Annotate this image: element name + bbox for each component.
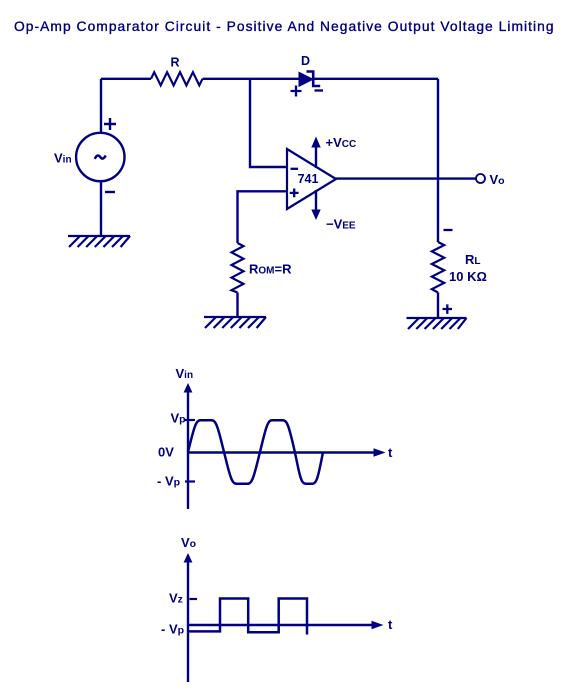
- label - (RL top polarity): [444, 229, 453, 231]
- svg-text:RL: RL: [465, 252, 481, 267]
- label + (source top): [104, 118, 116, 130]
- waveform: input sine: [188, 420, 323, 484]
- svg-text:Vz: Vz: [169, 591, 183, 606]
- label - (diode cathode): [315, 89, 324, 91]
- svg-text:Vo: Vo: [181, 535, 196, 550]
- wire: non-inverting input: [238, 191, 288, 243]
- svg-text:−VEE: −VEE: [326, 217, 356, 232]
- svg-text:Vin: Vin: [176, 366, 194, 381]
- wire: ROM to ground: [236, 293, 238, 318]
- supply arrow -VEE: [311, 190, 320, 220]
- wire: Vin bottom to ground: [100, 181, 102, 236]
- svg-text:D: D: [301, 54, 310, 68]
- waveform: output square: [188, 599, 307, 635]
- svg-text:Vp: Vp: [171, 411, 186, 426]
- tick Vz: [190, 598, 198, 600]
- label ~ (AC symbol): [95, 155, 106, 158]
- svg-text:- Vp: - Vp: [157, 474, 180, 489]
- svg-text:t: t: [388, 617, 393, 632]
- graph 1 y-axis: [184, 383, 193, 509]
- resistor ROM: [232, 243, 244, 293]
- svg-text:10 KΩ: 10 KΩ: [449, 269, 487, 284]
- label - (inverting input): [291, 168, 299, 170]
- ground (RL): [407, 318, 467, 329]
- svg-text:741: 741: [298, 172, 319, 186]
- supply arrow +Vcc: [311, 137, 320, 169]
- wire: top rail middle (R to diode): [203, 78, 301, 80]
- label + (diode anode): [291, 86, 302, 97]
- graph 1 x-axis: [188, 448, 386, 457]
- wire: right rail down: [437, 79, 439, 242]
- svg-text:ROM=R: ROM=R: [249, 262, 292, 277]
- svg-text:0V: 0V: [158, 445, 174, 460]
- tick -Vp: [185, 480, 195, 482]
- op-amp U1 741: [287, 149, 336, 209]
- tick Vp: [185, 419, 195, 421]
- terminal Vo (open circle): [476, 174, 485, 183]
- wire: Vin top: [100, 79, 102, 134]
- wire: junction down to inverting input: [250, 79, 287, 167]
- ground (ROM): [204, 317, 266, 328]
- wire: RL to ground: [437, 293, 439, 319]
- svg-text:- Vp: - Vp: [161, 622, 184, 637]
- diode D (zener): [299, 72, 320, 87]
- svg-text:t: t: [388, 445, 393, 460]
- label + (RL bottom polarity): [443, 304, 453, 314]
- resistor R: [151, 72, 203, 85]
- resistor RL: [432, 242, 444, 293]
- ground (Vin): [68, 236, 130, 247]
- svg-text:Vo: Vo: [490, 172, 505, 187]
- wire: top rail right (diode to right rail corner): [314, 78, 439, 80]
- source Vin (AC): [76, 133, 124, 181]
- svg-text:Vin: Vin: [54, 151, 72, 166]
- graph 2 x-axis: [188, 621, 384, 630]
- label - (source bottom): [105, 191, 115, 193]
- wire: top rail left (Vin top to resistor R): [101, 78, 151, 80]
- svg-text:R: R: [170, 56, 179, 70]
- svg-text:+VCC: +VCC: [326, 135, 357, 150]
- label + (non-inverting input): [290, 189, 299, 198]
- graph 2 y-axis: [184, 553, 193, 682]
- svg-text:Op-Amp Comparator Circuit - Po: Op-Amp Comparator Circuit - Positive And…: [14, 19, 555, 34]
- wire: op-amp output to Vo terminal: [335, 177, 476, 179]
